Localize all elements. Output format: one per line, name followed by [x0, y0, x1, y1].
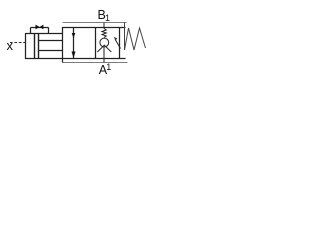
svg-text:1: 1	[105, 13, 110, 23]
svg-text:1: 1	[106, 62, 111, 72]
svg-text:x: x	[7, 38, 14, 53]
